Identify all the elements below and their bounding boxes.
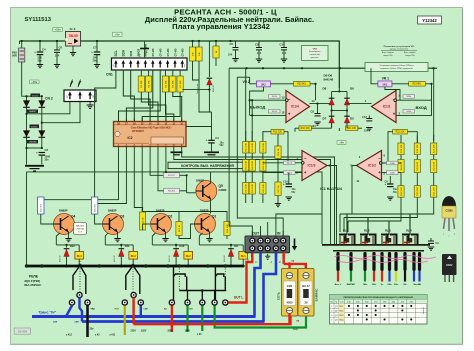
- wire ladder R14: [251, 131, 253, 203]
- diode D3: [23, 131, 30, 138]
- svg-text:1N5398: 1N5398: [29, 142, 37, 144]
- resistor R14b: [249, 160, 255, 172]
- resistor horiz R22: [393, 129, 408, 134]
- transistor Q1: [195, 214, 216, 235]
- wire sense OUT: [229, 68, 252, 236]
- resistor R15a: [260, 142, 266, 154]
- wire pin12: [250, 114, 286, 116]
- capacitor C1: [206, 138, 215, 143]
- svg-text:R23 9K1: R23 9K1: [413, 84, 423, 86]
- wire tail x414: [413, 271, 415, 282]
- svg-text:R18 10K: R18 10K: [401, 187, 403, 196]
- resistor R 4.7k: [164, 173, 180, 178]
- svg-text:чёр: чёр: [91, 308, 96, 311]
- table relay switching: [330, 295, 428, 325]
- transistor Q5: [196, 181, 217, 202]
- svg-text:IC1/3: IC1/3: [308, 164, 316, 168]
- wire RL4 bottom: [66, 257, 68, 267]
- junction RL4: [65, 265, 68, 268]
- svg-text:CN 2: CN 2: [45, 97, 53, 101]
- svg-text:к: к: [448, 236, 449, 238]
- wire CN2 pin1: [27, 102, 70, 114]
- resistor R2 below CN1: [138, 76, 144, 92]
- label D1-D2: [31, 94, 41, 98]
- svg-text:R21 10K: R21 10K: [434, 161, 436, 170]
- relay coil RL.4: [402, 228, 418, 245]
- wire tail x382: [381, 271, 383, 282]
- wire blue drop RL4b: [80, 298, 83, 322]
- svg-text:R15 10K: R15 10K: [263, 142, 265, 151]
- svg-text:SY111513: SY111513: [25, 17, 52, 23]
- wires CN1 pins down: [140, 70, 142, 76]
- info box limits: [365, 63, 428, 72]
- wire C4: [39, 41, 41, 52]
- wire RL3 top: [105, 244, 133, 246]
- wire green bus: [215, 306, 306, 328]
- svg-text:зеф: зеф: [293, 328, 298, 331]
- svg-text:Q5: Q5: [219, 184, 223, 188]
- tag +5v: [113, 32, 123, 36]
- resistor R14c: [249, 183, 255, 195]
- transistor Q4: [54, 214, 75, 235]
- svg-text:RL.2: RL.2: [364, 228, 370, 232]
- ground C6: [54, 65, 60, 68]
- svg-text:D11: D11: [125, 244, 130, 248]
- svg-text:IC1/1: IC1/1: [383, 105, 391, 109]
- svg-text:х #12: х #12: [66, 334, 72, 336]
- terminal RL1 a: [212, 300, 217, 305]
- wire Q5 collector: [210, 172, 212, 183]
- svg-text:25v: 25v: [90, 328, 95, 331]
- svg-text:жёл: жёл: [114, 308, 120, 311]
- ground bus: [26, 265, 243, 268]
- wire pin10 net: [263, 172, 302, 174]
- svg-text:C5: C5: [230, 42, 234, 46]
- wire VR1 to R23: [392, 83, 409, 85]
- svg-text:C7: C7: [93, 46, 97, 50]
- diode D11: [119, 249, 125, 257]
- ground below MCU: [171, 152, 183, 155]
- svg-text:ВА 47: ВА 47: [302, 284, 310, 288]
- junction RL1: [230, 265, 233, 268]
- pink link wires: [334, 256, 436, 263]
- wire blue IN N: [264, 252, 277, 322]
- wire mcu pin18 to C1: [118, 119, 120, 122]
- svg-text:R13 10K: R13 10K: [246, 183, 248, 192]
- wire pin13: [250, 99, 286, 101]
- wire drive Q3: [95, 147, 127, 204]
- wire C4 gnd: [39, 55, 41, 64]
- junction CN2 joins: [25, 113, 27, 115]
- wire +5v top rail: [20, 41, 340, 88]
- terminal RL3 a: [122, 300, 127, 305]
- svg-text:Q4: Q4: [71, 215, 75, 219]
- resistor R18c: [398, 186, 404, 198]
- resistor R18b: [398, 160, 404, 173]
- svg-text:2K2: 2K2: [261, 82, 266, 86]
- wire tail x405: [404, 271, 406, 282]
- wire pin2 net: [396, 99, 432, 101]
- wire breaker2 bottom green: [305, 314, 307, 328]
- svg-text:R6 43K: R6 43K: [173, 80, 175, 88]
- svg-text:ст-из: ст-из: [173, 48, 177, 56]
- svg-text:D12: D12: [70, 244, 75, 248]
- svg-text:IC 3: IC 3: [70, 27, 76, 31]
- svg-text:R13 10K: R13 10K: [246, 142, 248, 151]
- wire drive Q1: [142, 147, 227, 222]
- svg-text:R19 10K: R19 10K: [417, 161, 419, 170]
- grey box 103k c: [387, 161, 399, 165]
- svg-text:1N4007: 1N4007: [29, 111, 37, 113]
- ground mark connector: [265, 254, 270, 259]
- svg-text:78L05: 78L05: [69, 34, 79, 38]
- wire end bar x338: [336, 252, 339, 271]
- svg-text:Q2: Q2: [168, 215, 172, 219]
- svg-text:Вых. N: Вых. N: [414, 284, 421, 286]
- svg-text:IC2: IC2: [128, 136, 133, 140]
- label C7 value: [93, 56, 98, 63]
- wire Q3 emitter: [117, 232, 119, 238]
- svg-text:10.0k: 10.0k: [287, 172, 293, 174]
- svg-text:R24 2K4: R24 2K4: [41, 203, 43, 212]
- wire ladder R13: [245, 131, 247, 203]
- svg-text:RL.1: RL.1: [343, 228, 349, 232]
- resistor horiz R11b: [346, 126, 358, 131]
- svg-text:C3: C3: [45, 148, 49, 152]
- down arrow: [292, 239, 297, 251]
- svg-text:+: +: [91, 50, 93, 54]
- junction dots top rail: [21, 40, 23, 42]
- capacitor C3: [36, 150, 45, 155]
- wire red drop RL3b: [132, 298, 134, 325]
- svg-text:R 4.7K: R 4.7K: [168, 175, 175, 177]
- svg-text:R16 1K: R16 1K: [278, 148, 280, 156]
- resistor R8 pullup: [189, 47, 195, 61]
- capacitor C7: [91, 50, 100, 55]
- svg-text:R2 43K: R2 43K: [141, 80, 143, 88]
- svg-text:CN1: CN1: [106, 73, 113, 77]
- svg-text:RL.4: RL.4: [406, 228, 412, 232]
- svg-text:R26 1K: R26 1K: [143, 217, 145, 225]
- resistor R6 below CN1: [177, 76, 183, 92]
- svg-text:D682P: D682P: [200, 208, 209, 212]
- svg-text:215V: 215V: [131, 330, 137, 332]
- breaker bypass: [298, 269, 314, 317]
- svg-text:Q3: Q3: [120, 215, 124, 219]
- wire R4.7k to Q5: [180, 174, 187, 176]
- wire VR2 left: [250, 83, 257, 85]
- label C1 value: [220, 141, 225, 147]
- svg-text:Вых.: Вых.: [248, 258, 250, 263]
- wire Q2 collector link: [152, 233, 155, 245]
- op-amp IC1/3: [302, 151, 327, 181]
- wire Q2 base: [142, 224, 144, 230]
- wire Q1 base: [179, 224, 195, 239]
- wire R28 down: [22, 62, 27, 96]
- capacitor C6: [54, 50, 60, 58]
- grey box 103k d: [387, 171, 399, 175]
- svg-text:+: +: [393, 111, 396, 116]
- svg-text:+5v: +5v: [339, 140, 344, 144]
- svg-text:C2383: C2383: [445, 210, 453, 213]
- svg-text:R10 10K: R10 10K: [301, 128, 310, 130]
- svg-text:R25 2K4: R25 2K4: [95, 203, 97, 212]
- terminal RL4 b: [77, 292, 82, 297]
- svg-text:R13 10K: R13 10K: [246, 160, 248, 169]
- wire long mid 1: [165, 147, 167, 172]
- diode D12: [64, 249, 70, 257]
- mid rail dots: [246, 67, 248, 69]
- wire drive Q4: [41, 147, 119, 200]
- wire rail stub left: [19, 41, 21, 44]
- trimmer VR1: [378, 81, 392, 87]
- capacitor C4: [34, 50, 43, 55]
- AC swirl arrows: [70, 80, 81, 88]
- svg-text:30A 250VAC: 30A 250VAC: [24, 283, 42, 287]
- svg-text:0v: 0v: [271, 261, 273, 263]
- tag +15v: [53, 27, 63, 31]
- wire ladder R21: [433, 135, 435, 205]
- wire C1: [211, 112, 213, 140]
- diode D1: [23, 101, 30, 108]
- resistor R13a: [243, 142, 249, 154]
- svg-text:29: 29: [305, 301, 308, 305]
- wire olive drop RL3a: [124, 306, 126, 336]
- svg-text:C8: C8: [255, 42, 259, 46]
- transistor Q2: [151, 214, 172, 235]
- wire end bar x382: [380, 252, 383, 271]
- transistor photo TO-92 C2383: [442, 196, 456, 238]
- wire IC3 gnd: [72, 46, 74, 52]
- wire Q1 collector link: [199, 233, 202, 245]
- wire breaker2 top red: [305, 269, 307, 273]
- label C4 value: [38, 56, 43, 63]
- svg-text:C26: C26: [287, 284, 292, 288]
- svg-text:D7: D7: [323, 117, 327, 121]
- svg-text:10.0k: 10.0k: [287, 163, 293, 165]
- svg-text:VR 2: VR 2: [243, 80, 250, 84]
- wire end bar x414: [412, 252, 415, 271]
- resistor R15b: [260, 160, 266, 172]
- svg-text:D3-D4: D3-D4: [31, 126, 38, 128]
- wire pin1 out: [347, 103, 372, 105]
- svg-text:D10: D10: [180, 244, 185, 248]
- wire CN2 pin2: [42, 102, 80, 123]
- grey box 10.0k c: [284, 161, 296, 165]
- svg-text:+: +: [36, 150, 38, 154]
- board code box Y12342: [418, 16, 442, 24]
- terminal RL1 c: [223, 300, 228, 305]
- capacitor C12: [366, 115, 372, 130]
- label C9 value: [393, 189, 398, 194]
- svg-text:ст-из: ст-из: [181, 48, 185, 56]
- grey box 103k a: [403, 95, 415, 99]
- wire RL3 bottom: [120, 257, 122, 267]
- svg-text:+15v: +15v: [55, 27, 62, 31]
- svg-text:R20 9K1: R20 9K1: [297, 84, 307, 86]
- svg-text:ст-из: ст-из: [151, 48, 155, 56]
- svg-text:D682P: D682P: [59, 208, 68, 212]
- wire red drop RL2a: [171, 306, 173, 333]
- svg-text:D6: D6: [350, 87, 354, 91]
- wire blue riser RL4a: [66, 306, 72, 317]
- breaker C26: [282, 269, 298, 317]
- ground C7: [94, 65, 100, 68]
- svg-text:Слв: Слв: [340, 302, 344, 304]
- resistor R4 below CN1: [162, 76, 168, 92]
- terminal RL3 b: [131, 292, 136, 297]
- wire C6: [56, 41, 58, 50]
- svg-text:R15 10K: R15 10K: [263, 183, 265, 192]
- wire long mid 2: [174, 147, 331, 245]
- relay coil box RL3: [129, 252, 138, 260]
- svg-text:син: син: [75, 320, 80, 323]
- wire rail2: [237, 76, 249, 78]
- red bus: [134, 314, 291, 325]
- svg-text:ст-из: ст-из: [166, 48, 170, 56]
- relay contact RL1: [224, 264, 227, 267]
- terminal mid: [200, 300, 205, 305]
- svg-text:IN4148: IN4148: [114, 255, 116, 262]
- wire R28 to rail: [21, 41, 23, 48]
- wire tail x389.5: [388, 271, 390, 282]
- relay contact RL2: [178, 264, 181, 267]
- wire Q4 collector link: [56, 233, 60, 245]
- wire Q4 base: [41, 214, 54, 224]
- junction RL3: [120, 265, 123, 268]
- wire blue drop RL3c: [140, 306, 142, 317]
- label 1N4007: [27, 110, 38, 113]
- wire green drop mid: [201, 306, 203, 332]
- svg-text:R18 10K: R18 10K: [401, 144, 403, 153]
- grey box 10.0k d: [284, 171, 296, 175]
- svg-text:D882: D882: [446, 263, 453, 267]
- svg-text:+: +: [34, 50, 36, 54]
- svg-text:R21 10K: R21 10K: [434, 144, 436, 153]
- svg-text:C1: C1: [215, 136, 219, 140]
- svg-text:C14: C14: [280, 42, 286, 46]
- grey box 103k b: [403, 109, 415, 113]
- wire drive Q5: [150, 147, 163, 176]
- wire ladder feeds: [245, 68, 247, 141]
- svg-text:+: +: [304, 170, 307, 175]
- label D3-D4: [30, 125, 40, 129]
- svg-text:R19 10K: R19 10K: [417, 187, 419, 196]
- transistor photo TO-220 D882: [442, 254, 457, 282]
- op-amp IC1/1: [372, 91, 397, 123]
- wire RL1 bottom: [230, 257, 232, 267]
- wire bundle to coils: [339, 214, 341, 232]
- junction RL2: [175, 265, 178, 268]
- coil verts: [339, 236, 341, 245]
- terminal RL3 c: [138, 300, 143, 305]
- capacitor C13: [314, 104, 320, 126]
- relay coil box RL1: [239, 252, 248, 260]
- svg-text:БАЙПАС: БАЙПАС: [315, 288, 319, 302]
- wire VR1 left: [371, 68, 378, 84]
- resistor R21a: [431, 143, 437, 155]
- svg-text:э: э: [443, 234, 444, 236]
- relay coil box RL2: [184, 252, 193, 260]
- svg-text:Установка нижнего (Uвых 209в): Установка нижнего (Uвых 209в) и: [380, 65, 415, 67]
- svg-text:дисп: дисп: [136, 49, 140, 57]
- tag +16v: [30, 80, 40, 84]
- relay coil RL.2: [360, 228, 376, 245]
- svg-text:50v: 50v: [220, 144, 225, 147]
- info box VR2 calibration: [302, 46, 329, 61]
- capacitor C14: [281, 41, 287, 62]
- ground IC3: [70, 53, 76, 56]
- svg-text:RL3: RL3: [131, 254, 136, 258]
- wire pullups down: [192, 41, 194, 47]
- svg-text:10.0k: 10.0k: [272, 111, 278, 113]
- svg-text:син: син: [53, 320, 58, 323]
- wire RL1 top: [199, 244, 243, 246]
- svg-text:D682P: D682P: [108, 208, 117, 212]
- svg-text:D1-D2: D1-D2: [32, 95, 39, 97]
- capacitor C5: [232, 41, 238, 62]
- label C3 value: [45, 156, 51, 162]
- svg-text:4500: 4500: [287, 301, 293, 305]
- resistor R19a: [414, 143, 420, 155]
- svg-text:вверх 22в: вверх 22в: [383, 55, 392, 57]
- svg-text:10.0k: 10.0k: [272, 96, 278, 98]
- regulator IC3: [65, 32, 81, 47]
- svg-text:196V: 196V: [185, 330, 191, 332]
- grey box 10.0k a: [269, 95, 281, 99]
- capacitor C8: [256, 41, 262, 62]
- wire tail x419.5: [418, 271, 420, 282]
- svg-text:SDA: SDA: [122, 49, 126, 56]
- wire Q5 emitter: [210, 199, 212, 214]
- terminal RL2 c: [185, 300, 190, 305]
- resistor base Q1b: [176, 222, 182, 236]
- wire diode col left: [331, 92, 333, 129]
- diode D4: [39, 131, 46, 138]
- ground C1: [204, 152, 219, 157]
- svg-text:BW-5700: BW-5700: [76, 225, 84, 227]
- svg-text:RL4: RL4: [77, 254, 82, 258]
- relay contact RL3: [131, 264, 134, 267]
- wire pin9 net: [263, 162, 302, 164]
- wire pin5 net: [382, 172, 402, 174]
- wire long mid 4: [27, 172, 323, 244]
- svg-text:T0.7: T0.7: [78, 231, 82, 233]
- svg-text:КОНТРОЛЬ ВЫХ. НАПРЯЖЕНИЯ: КОНТРОЛЬ ВЫХ. НАПРЯЖЕНИЯ: [181, 164, 234, 168]
- diode D8: [329, 98, 335, 105]
- wire second rail vertical: [41, 96, 43, 148]
- svg-text:IN4148: IN4148: [224, 255, 226, 262]
- svg-text:R14 10K: R14 10K: [252, 160, 254, 169]
- svg-text:R12 10K: R12 10K: [273, 132, 282, 134]
- wire d13 branch: [182, 89, 209, 91]
- note box BW: [74, 223, 87, 235]
- junction d join: [25, 147, 27, 149]
- wire rail join: [27, 95, 42, 97]
- capacitor C10: [283, 173, 292, 201]
- svg-text:IN4148: IN4148: [169, 255, 171, 262]
- wire 2k2 right: [180, 190, 187, 192]
- svg-text:D682P: D682P: [156, 208, 165, 212]
- wire r12 link: [263, 131, 271, 133]
- wire bus upturn: [26, 172, 28, 266]
- resistor R13c: [243, 183, 249, 195]
- wire CN1 center pin to rail: [144, 41, 146, 58]
- ground C4: [37, 65, 43, 68]
- wire conn stub net: [260, 226, 262, 231]
- svg-text:R22 10K: R22 10K: [396, 132, 405, 134]
- svg-text:IN4148: IN4148: [59, 255, 61, 262]
